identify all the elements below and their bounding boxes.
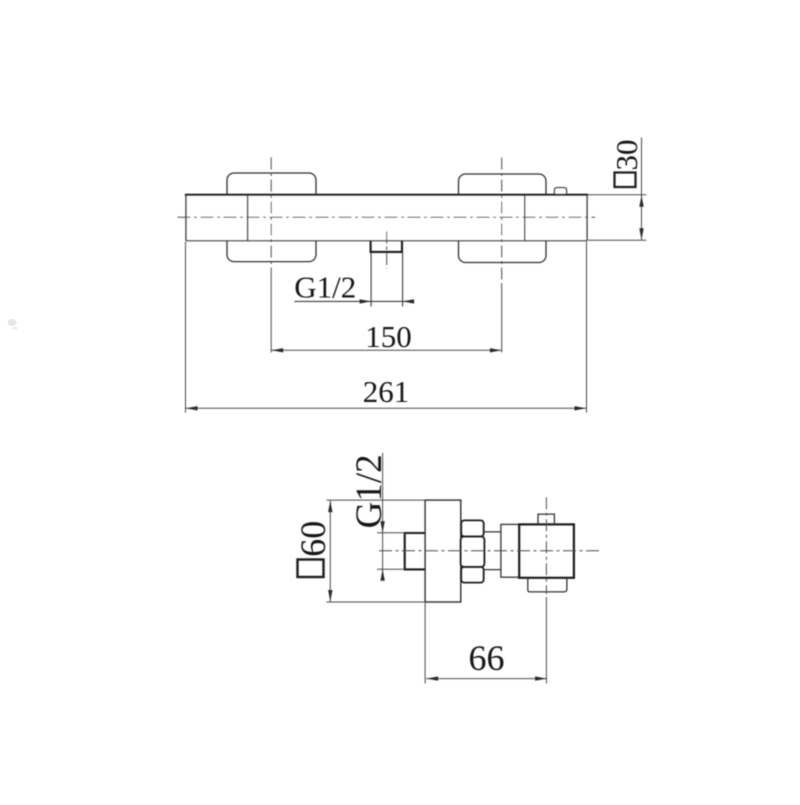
svg-text:G1/2: G1/2 (349, 454, 390, 528)
svg-text:150: 150 (365, 319, 412, 354)
svg-text:60: 60 (293, 521, 333, 557)
svg-text:G1/2: G1/2 (294, 269, 356, 304)
svg-text:66: 66 (469, 638, 505, 678)
svg-text:261: 261 (363, 374, 410, 409)
svg-text:30: 30 (609, 140, 644, 171)
